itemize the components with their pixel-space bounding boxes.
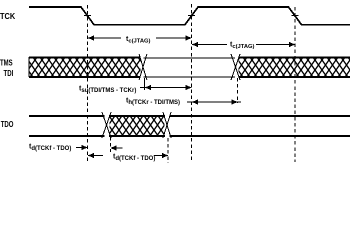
arrow tc(JTAG) cycle 1 <box>88 35 192 40</box>
svg-text:TDO: TDO <box>1 120 14 129</box>
wire TCK waveform <box>29 7 350 25</box>
dashed line at TDO valid <box>167 138 169 163</box>
svg-text:tc(JTAG): tc(JTAG) <box>230 42 255 50</box>
wire TMS/TDI hatched region 1 <box>29 57 141 77</box>
dashed line at second TCK falling edge <box>294 7 296 162</box>
TMS/TDI transition to invalid <box>231 54 240 80</box>
wire TDO valid rails right <box>170 116 351 136</box>
TMS/TDI transition to valid <box>139 54 147 80</box>
svg-text:td(TCKf - TDO): td(TCKf - TDO) <box>113 154 155 162</box>
arrow th hold time <box>187 99 241 104</box>
arrow td1 left pointer <box>76 145 88 150</box>
dashed line at TDO start of change <box>110 137 112 152</box>
tick at TCK fall 2 mid level <box>292 15 299 17</box>
svg-text:tc(JTAG): tc(JTAG) <box>126 36 151 44</box>
arrow td1 right pointer <box>111 145 123 150</box>
TDO transition to valid <box>163 112 171 138</box>
svg-text:th(TCKr - TDI/TMS): th(TCKr - TDI/TMS) <box>126 98 180 106</box>
dashed line at first TCK falling edge <box>87 5 89 162</box>
dashed line at TCK rising edge <box>191 4 193 162</box>
dashed line at TMS/TDI end of valid <box>237 78 239 103</box>
arrow td2 right head <box>154 153 168 158</box>
TDO transition start <box>102 112 111 138</box>
tick at TCK fall 1 mid level <box>84 15 91 17</box>
wire TDO hatched changing region <box>109 115 165 136</box>
svg-text:td(TCKf - TDO): td(TCKf - TDO) <box>29 144 71 152</box>
svg-text:TCK: TCK <box>0 11 15 21</box>
solid drop line at TMS/TDI start of valid <box>144 78 146 90</box>
svg-text:TMS: TMS <box>0 59 13 68</box>
tick at TCK rise mid level <box>188 15 195 17</box>
svg-text:TDI: TDI <box>4 69 14 78</box>
arrow tc(JTAG) cycle 2 <box>192 42 295 47</box>
wire TDO valid rails left <box>29 116 105 136</box>
arrow td2 left head <box>88 153 103 158</box>
wire TMS/TDI valid region rails <box>144 58 236 77</box>
wire TMS/TDI hatched region 2 <box>239 57 351 77</box>
arrow tsu setup time <box>140 85 192 90</box>
